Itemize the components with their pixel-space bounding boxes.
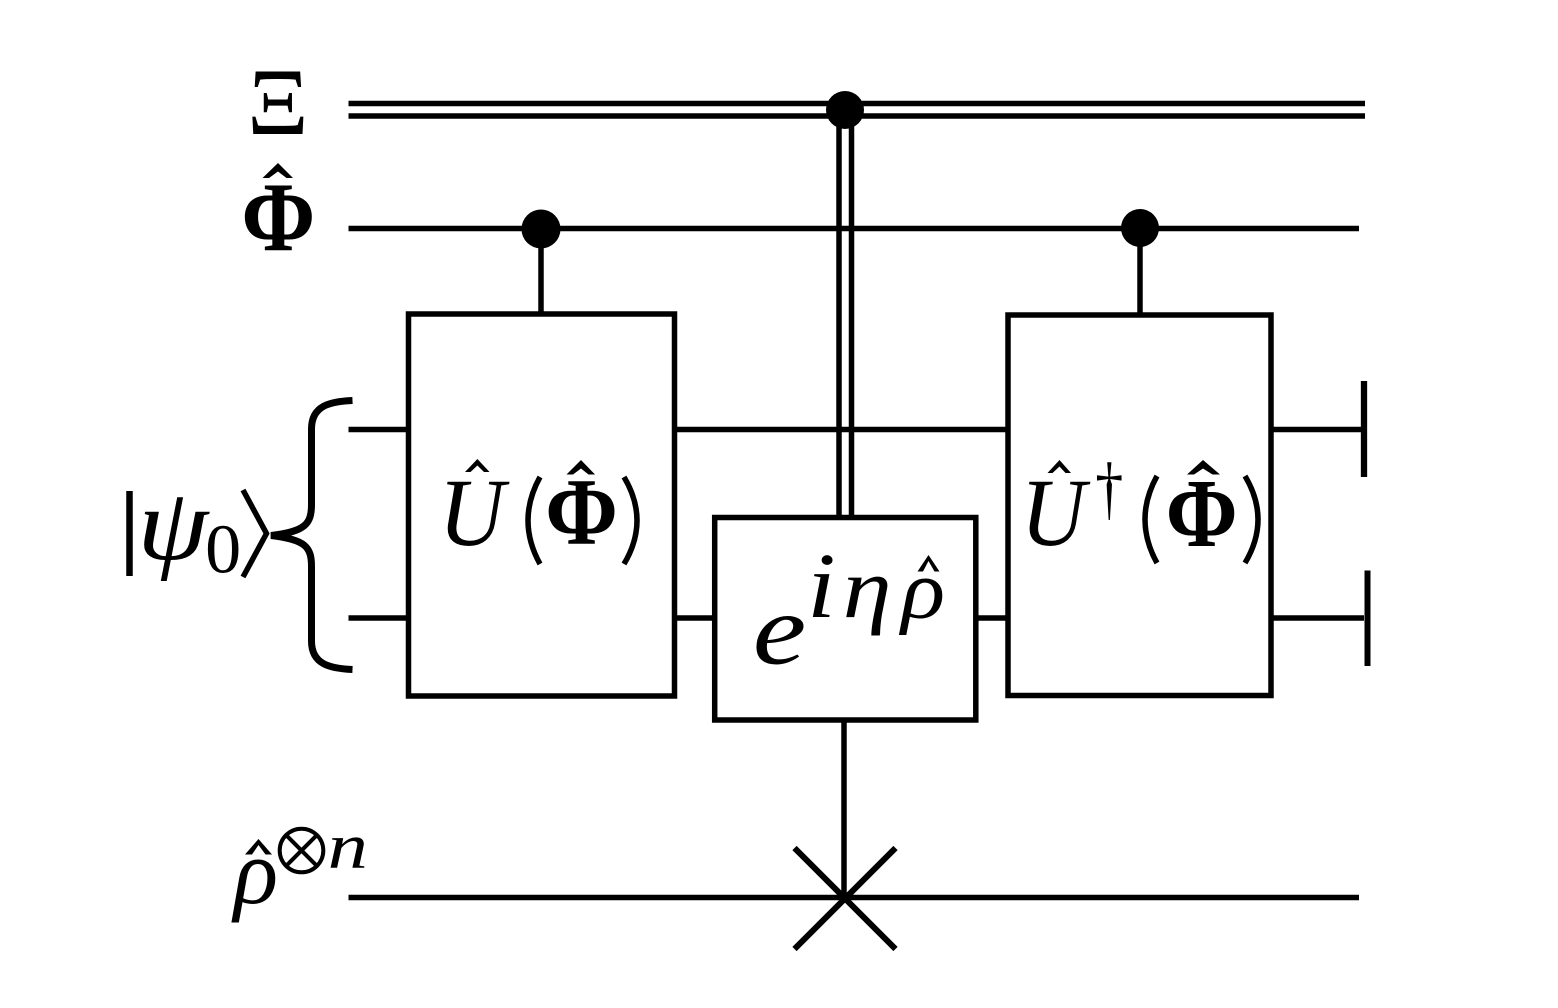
label rho tensor n — [231, 810, 368, 922]
svg-text:Φ: Φ — [545, 459, 618, 565]
svg-text:ρ: ρ — [898, 543, 945, 635]
control dot Phi to U-dagger gate — [1121, 209, 1159, 318]
terminator bar q2 — [1365, 571, 1371, 667]
wire q2 segment between exp gate and U-dagger gate — [970, 615, 1014, 621]
svg-text:i: i — [807, 535, 836, 638]
wire q1 middle segment — [669, 427, 1014, 433]
gate U(Phi) box — [409, 314, 675, 696]
svg-text:Φ: Φ — [241, 163, 315, 272]
label ket psi_0 — [130, 468, 267, 588]
svg-text:e: e — [753, 574, 806, 685]
classical control vertical double line from Xi to exp gate — [839, 110, 852, 519]
label Phi-hat (parameter register) — [241, 163, 315, 272]
brace grouping psi wires — [271, 401, 353, 670]
svg-text:Φ: Φ — [1166, 459, 1238, 567]
wire rho — [349, 895, 1360, 901]
wire q2 segment between U gate and exp gate — [669, 615, 720, 621]
vertical line from exp gate to swap cross — [841, 720, 847, 898]
svg-text:†: † — [1095, 448, 1123, 527]
wire q2 left segment — [349, 615, 415, 621]
control dot on Xi wire — [826, 91, 864, 129]
svg-text:n: n — [328, 810, 368, 882]
swap cross on rho wire — [795, 848, 896, 949]
wire q1 right segment — [1265, 427, 1361, 433]
svg-text:η: η — [843, 541, 892, 636]
label Xi (classical register) — [247, 49, 308, 155]
wire Phi — [349, 226, 1360, 232]
svg-text:ρ: ρ — [231, 821, 278, 923]
svg-text:Ξ: Ξ — [247, 49, 308, 155]
gate exp(i eta rho) box — [715, 518, 976, 721]
gate U-dagger(Phi) box — [1008, 315, 1271, 696]
control dot Phi to U gate — [522, 210, 561, 318]
terminator bar q1 — [1361, 381, 1367, 477]
wire q1 left segment — [349, 427, 415, 433]
wire Xi classical double line — [349, 104, 1366, 117]
wire q2 right segment — [1265, 615, 1364, 621]
svg-text:0: 0 — [205, 512, 241, 588]
svg-text:ψ: ψ — [137, 468, 210, 581]
svg-text:U: U — [439, 460, 511, 567]
svg-text:U: U — [1021, 460, 1091, 567]
